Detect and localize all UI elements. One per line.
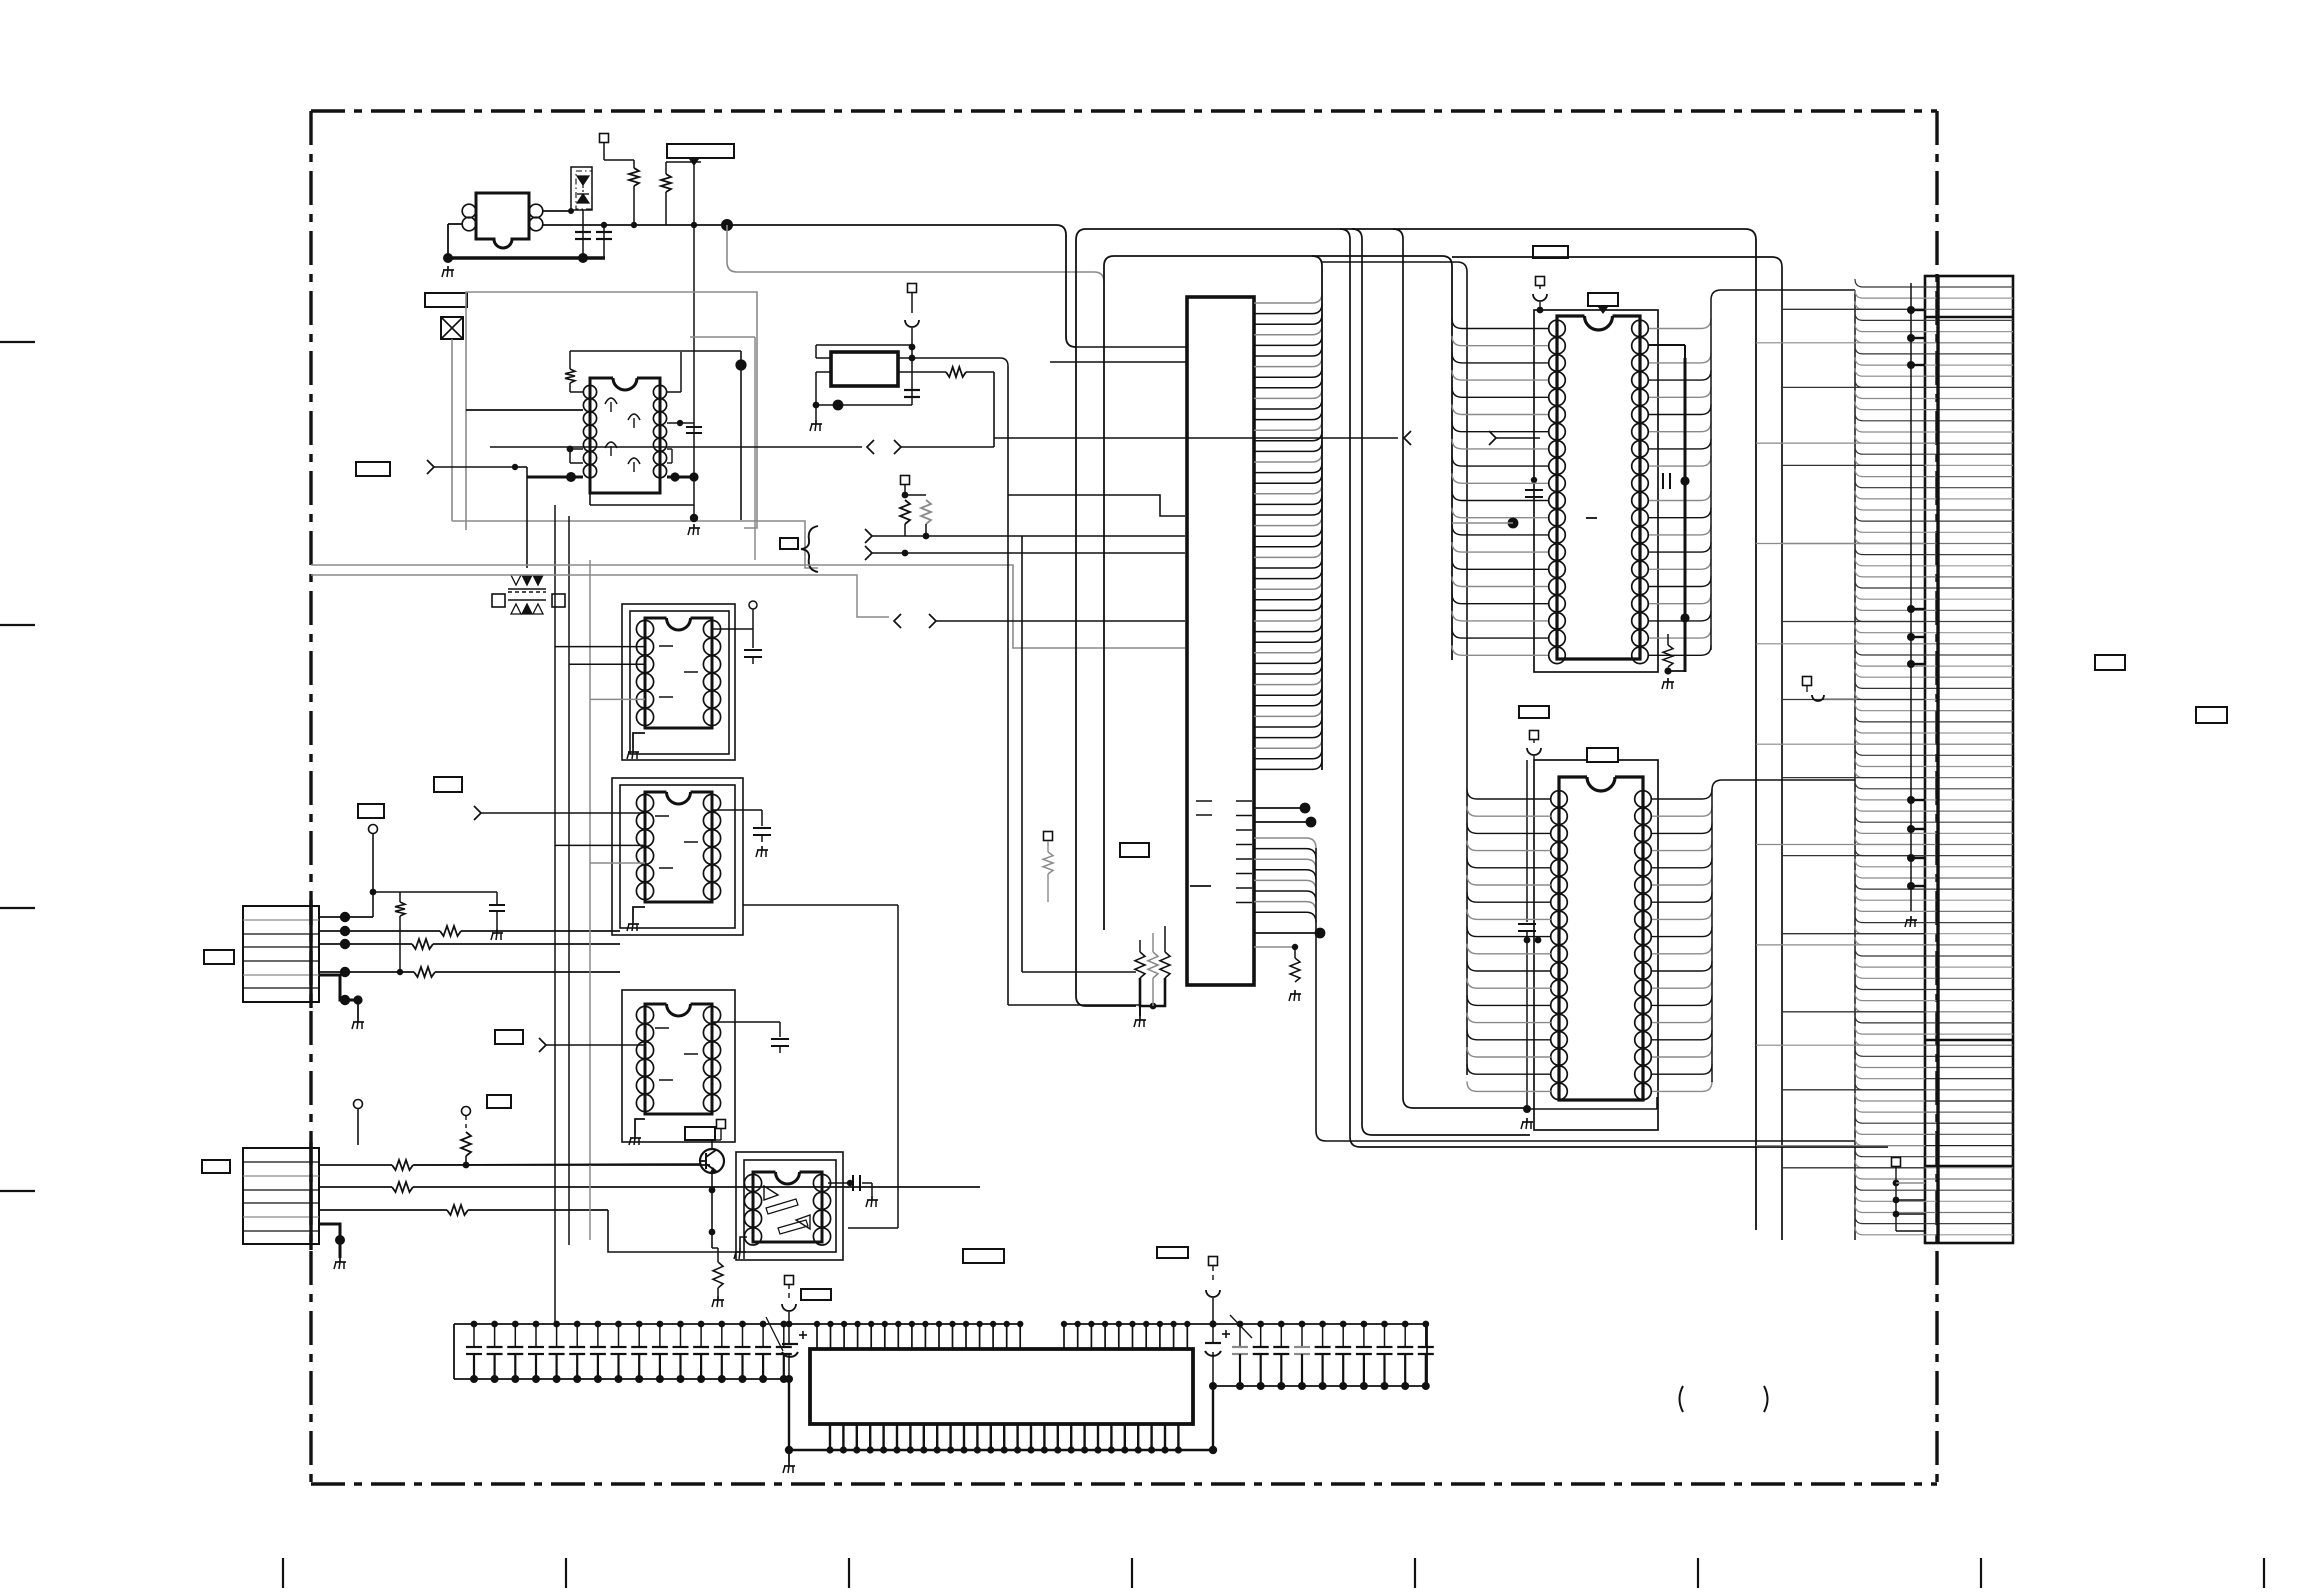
U0 wires left bbox=[466, 409, 583, 411]
line filter FL1 bbox=[476, 193, 529, 248]
IC2 pad anchor top bbox=[1536, 277, 1545, 286]
U10 right cap to ground bbox=[828, 1182, 850, 1184]
X1 bottom rail bbox=[813, 404, 912, 406]
pin circle above CN1 bbox=[369, 825, 378, 834]
side squares of bridge bbox=[492, 594, 505, 607]
label CN2 bbox=[202, 1160, 230, 1173]
varistor bridge triangles lower bbox=[511, 604, 521, 614]
caps C top-left bbox=[582, 231, 584, 258]
CN90 feeder vertical bbox=[1854, 290, 1856, 1240]
U0 right wires bbox=[667, 391, 681, 393]
signal pair arrows bbox=[865, 529, 872, 543]
IC3 right bus vertical bbox=[1711, 790, 1713, 1082]
U30 left input wires bbox=[1076, 346, 1187, 348]
IC3 pad anchor bbox=[1530, 731, 1539, 740]
trimmer pin above CN2 wire bbox=[462, 1107, 471, 1116]
cap row left bottom bus bbox=[454, 1378, 789, 1380]
X1 output resistor bbox=[898, 371, 946, 373]
bus vertical connector feed 2 bbox=[1452, 257, 1782, 1240]
border bold over CN2 bbox=[309, 1142, 312, 1250]
IC A ground bbox=[633, 733, 645, 748]
IC2 bottom label bbox=[1519, 706, 1549, 718]
U0 internal gate arrows bbox=[610, 402, 612, 412]
label near right elco bbox=[1157, 1247, 1188, 1258]
CN90 border line through bbox=[1936, 276, 1939, 1243]
bold ground rail top-left bbox=[448, 256, 605, 259]
IC A right cap bbox=[712, 628, 753, 630]
IC C ground wire bbox=[635, 1119, 645, 1134]
pull resistor CN1 bbox=[399, 892, 401, 902]
IC B input wire bbox=[481, 812, 645, 814]
IC3 outer loop rect bbox=[1534, 760, 1658, 1130]
wire loop DIPB to U10 bbox=[743, 904, 898, 906]
signal pair wires bbox=[872, 535, 1185, 537]
CN1 wire row3 bbox=[319, 943, 412, 945]
junction dots supply rail bbox=[601, 222, 607, 228]
pad with dual resistors bbox=[901, 476, 910, 485]
IC3 left pin feed arcs from bus bbox=[1467, 789, 1551, 799]
RAM bottom pins bbox=[829, 1424, 831, 1450]
cap row right bbox=[1426, 1324, 1428, 1386]
page alignment ticks left bbox=[0, 341, 35, 343]
electrolytic cap right with pad chain bbox=[1209, 1257, 1218, 1266]
brace and label mid bbox=[780, 538, 798, 549]
CN1 wire row2 bbox=[319, 930, 440, 932]
RAM block IC20 bbox=[810, 1349, 1193, 1424]
label mid column bbox=[1120, 843, 1149, 857]
CN90 section dividers bbox=[1925, 316, 2013, 319]
label supply top-left bbox=[667, 144, 734, 158]
U0 bold input wire bbox=[527, 476, 583, 479]
IC C body bbox=[667, 1004, 691, 1016]
decoupling caps left row bbox=[473, 1324, 475, 1347]
board outline dash-dot border bbox=[311, 109, 1937, 112]
CN90 sense rail with dots bbox=[1910, 283, 1912, 911]
op-amp IC A body bbox=[667, 618, 691, 630]
wires from FL1 bbox=[448, 223, 462, 225]
bold L wire below CN2 bbox=[319, 1224, 340, 1258]
IC C right cap bbox=[712, 1021, 780, 1023]
IC B inner marks bbox=[655, 815, 669, 817]
label VR box with X bbox=[425, 293, 467, 307]
crystal X1 block bbox=[831, 352, 898, 386]
vertical trunk wires bbox=[554, 505, 556, 1324]
junction dot main supply node bbox=[721, 219, 733, 231]
IC3 right pin stubs to bus bbox=[1652, 789, 1712, 799]
cap right of U0 bbox=[693, 423, 695, 518]
IC C ground bbox=[634, 1134, 636, 1138]
central IC U30 body bbox=[1187, 297, 1254, 985]
IC B loop rects bbox=[612, 778, 743, 935]
gray vertical right of U0 bbox=[754, 337, 756, 560]
IC B left pin wires bbox=[555, 844, 645, 846]
IC2 label and pointer bbox=[1588, 293, 1618, 306]
pad+resistor mid column bbox=[1044, 832, 1053, 841]
right connector CN90 body bbox=[1925, 276, 2013, 1243]
resistor R top-left a bbox=[629, 168, 639, 186]
signal wire with inline break a bbox=[490, 446, 862, 448]
IC B right cap bbox=[712, 809, 762, 811]
cap to ground right of CN1 bbox=[496, 892, 498, 905]
bus horizontal H2 y256 bbox=[1104, 256, 1452, 660]
IC C inner marks bbox=[655, 1027, 669, 1029]
CN1 bold ground row bbox=[319, 975, 362, 1000]
Q1 base wire bbox=[414, 1164, 700, 1165]
Q1 emitter down bbox=[711, 1173, 713, 1248]
bus horizontal H1 y229 bbox=[1076, 229, 1756, 1230]
gray branch from supply node to loop bbox=[727, 225, 1104, 282]
U10 internal inverters bbox=[764, 1186, 778, 1200]
crossed-square transducer bbox=[441, 317, 463, 339]
IC2 left cap bbox=[1525, 489, 1543, 491]
signal wire continuation with second break bbox=[994, 437, 1398, 439]
IC C input arrow bbox=[539, 1038, 546, 1052]
IC2 outer loop rect bbox=[1534, 310, 1658, 672]
parentheses bottom right bbox=[1680, 1386, 1684, 1412]
U0 loop top with resistor bbox=[570, 350, 741, 352]
page alignment ticks bottom bbox=[282, 1558, 284, 1588]
RAM bottom ground bus bbox=[789, 1449, 1213, 1452]
left row bus drop to ground bus bbox=[788, 1379, 790, 1450]
U10 left ground bbox=[740, 1237, 747, 1248]
IC2 right cap bbox=[1662, 473, 1664, 489]
X1 thin loop wires bbox=[816, 344, 912, 346]
IC2 big dot left bbox=[1508, 518, 1519, 529]
CN1 wire row4 bbox=[319, 971, 414, 973]
U30 bus vertical right bbox=[1321, 266, 1323, 770]
U30 pins with junction dots bbox=[1254, 807, 1302, 809]
Q1 collector pad and label bbox=[711, 1131, 713, 1150]
U30 internal pin ticks bbox=[1236, 800, 1252, 802]
label and arrow mid-left bbox=[356, 462, 390, 476]
IC A inner marks bbox=[659, 645, 673, 647]
connector CN left-2 bbox=[243, 1148, 319, 1244]
pin circle above CN2 bbox=[354, 1100, 363, 1109]
RAM top pins bbox=[816, 1324, 818, 1349]
pad anchor feeding bus right bbox=[1803, 677, 1812, 686]
transistor Q1 bbox=[700, 1149, 724, 1173]
dual diode D1 boxes bbox=[571, 167, 592, 210]
label CN1 bbox=[204, 950, 234, 964]
long vertical bus pair center-left bbox=[1007, 366, 1009, 1005]
X1 pad and anchor bbox=[908, 284, 917, 293]
label right of U10 bbox=[963, 1249, 1004, 1263]
U30 pin pull-down resistor bbox=[1254, 946, 1295, 948]
IC3 body bbox=[1587, 777, 1615, 791]
pad to supply above diode bbox=[600, 134, 609, 143]
IC A pin top circle bbox=[749, 601, 757, 609]
IC2 bottom resistor to ground bbox=[1667, 634, 1669, 645]
X1 cap right bbox=[904, 389, 920, 391]
IC2 right bus vertical bbox=[1710, 300, 1712, 650]
labels near DIP ICs bbox=[434, 777, 462, 792]
labels right area bbox=[2095, 655, 2125, 670]
bus vertical pair mid bbox=[1340, 229, 1888, 1147]
U30 lower pins group to down bus bbox=[1254, 838, 1316, 848]
IC3 left rail cap bbox=[1526, 760, 1528, 922]
gray loop around opto IC bbox=[451, 339, 453, 521]
CN90 long feed lines subset bbox=[1782, 308, 1925, 310]
U10 loop rects bbox=[736, 1152, 843, 1260]
IC B body bbox=[667, 792, 691, 804]
border bold over CN1 bbox=[309, 900, 312, 1008]
IC B ground bbox=[633, 907, 645, 920]
wire from supply node corner down bbox=[1056, 225, 1076, 347]
Q1 emitter resistor to ground bbox=[713, 1262, 723, 1288]
label left-bottom of U10 bbox=[801, 1289, 831, 1300]
resistor R top-left b bbox=[661, 174, 671, 192]
IC3 ground bottom bbox=[1523, 1105, 1531, 1113]
IC2 body bbox=[1585, 316, 1613, 330]
gray return wire bbox=[311, 565, 1185, 648]
pad cluster lower right of CN90 bbox=[1892, 1158, 1901, 1167]
IC3 label bbox=[1587, 748, 1618, 762]
U30 left lower resistor trio bbox=[1135, 952, 1145, 978]
inverter IC U10 body bbox=[776, 1172, 800, 1184]
IC A loop rects bbox=[622, 604, 735, 760]
label box on bus rows bbox=[1533, 246, 1568, 258]
IC C loop rects bbox=[622, 990, 735, 1142]
opto/driver IC U0 DIP bbox=[613, 378, 637, 390]
wires from CN1 bbox=[319, 916, 373, 918]
cap row left top bus bbox=[454, 1323, 1021, 1325]
bus vertical to IC3 left bbox=[1322, 262, 1467, 1075]
IC2 dash mark inside bbox=[1586, 517, 1597, 519]
IC A left pin wires bbox=[555, 646, 645, 648]
wires from CN2 bbox=[319, 1164, 392, 1166]
connector CN left-1 bbox=[243, 906, 319, 1002]
electrolytic cap left with pad chain bbox=[785, 1276, 794, 1285]
label left mid bbox=[358, 804, 384, 818]
bus vertical V7 bbox=[1393, 229, 1527, 1108]
CN90 pin stub comb bbox=[1855, 279, 1925, 287]
X1 top pin wire to long vertical bbox=[898, 357, 1000, 359]
varistor bridge triangles upper bbox=[511, 575, 521, 585]
U30 pin stubs merging to bus bbox=[1254, 293, 1322, 303]
U0 bottom loop bbox=[589, 493, 591, 505]
IC2 bold right rail bbox=[1684, 358, 1687, 672]
IC2 right pin stubs to bus bbox=[1649, 319, 1711, 329]
IC2 left pin feed arcs from bus bbox=[1452, 319, 1548, 329]
CN90 pin rows bbox=[1925, 286, 2013, 288]
